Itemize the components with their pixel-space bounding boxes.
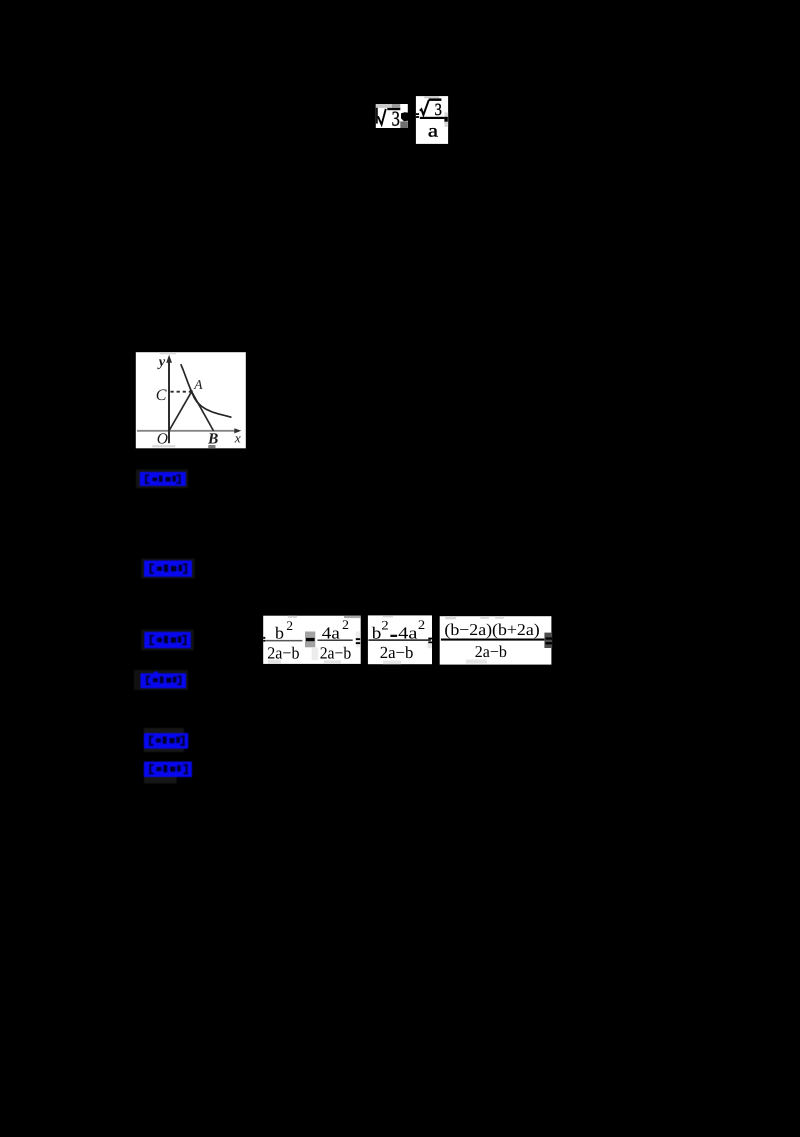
x-axis <box>137 430 239 432</box>
blue highlight run 5 <box>144 728 188 752</box>
svg-text:y: y <box>157 354 166 370</box>
svg-text:(b−2a)(b+2a): (b−2a)(b+2a) <box>444 620 539 639</box>
svg-text:2: 2 <box>286 618 293 633</box>
hyperbola curve <box>181 364 232 417</box>
gray square under B <box>208 445 215 448</box>
graph figure: white box <box>136 352 246 448</box>
minus sign with gray box <box>305 632 315 648</box>
equation block B: (b^2-4a^2)/(2a-b) = <box>368 615 432 664</box>
svg-text:a: a <box>428 121 438 141</box>
svg-text:b: b <box>275 624 284 643</box>
trailing equals in dark box <box>544 633 552 648</box>
svg-text:3: 3 <box>392 107 400 131</box>
svg-text:2a−b: 2a−b <box>320 643 352 662</box>
svg-text:x: x <box>234 430 241 445</box>
trailing equals of block A <box>356 638 360 640</box>
blue highlight run 4 <box>134 670 188 690</box>
gray strip top of figure <box>160 352 176 354</box>
svg-text:3: 3 <box>435 100 442 119</box>
svg-text:2a−b: 2a−b <box>267 644 299 663</box>
svg-text:C: C <box>156 387 167 404</box>
svg-text:2: 2 <box>381 618 388 633</box>
blue highlight run 6 <box>144 762 192 784</box>
y-axis arrow <box>166 355 172 363</box>
formula image 2: sqrt(3)/a block <box>416 96 448 144</box>
trailing equals of block B <box>428 638 432 640</box>
blue highlight run 2 <box>141 559 195 579</box>
equals sign at left edge of block 2 <box>416 113 419 115</box>
y-axis <box>168 360 170 443</box>
equation block C: (b-2a)(b+2a)/(2a-b) <box>440 616 553 664</box>
line A to B <box>190 389 213 431</box>
blue highlight run 1 <box>136 470 188 489</box>
svg-text:B: B <box>207 431 218 448</box>
svg-text:O: O <box>157 431 168 448</box>
svg-text:2: 2 <box>342 617 349 632</box>
svg-text:2a−b: 2a−b <box>380 643 414 662</box>
blue highlight run 3 <box>141 630 194 651</box>
leading equals notches on left edge <box>263 637 265 639</box>
line O to A <box>169 390 192 431</box>
svg-text:2: 2 <box>418 617 425 632</box>
x-axis arrow <box>234 428 241 433</box>
gray strips bottom of figure <box>152 445 175 447</box>
svg-text:A: A <box>193 377 203 392</box>
dashed line C to A <box>171 391 192 393</box>
formula image 1: sqrt(3) block <box>376 104 408 131</box>
svg-text:2a−b: 2a−b <box>475 642 507 661</box>
equation block A: b^2/(2a-b) - 4a^2/(2a-b) = <box>263 616 361 664</box>
